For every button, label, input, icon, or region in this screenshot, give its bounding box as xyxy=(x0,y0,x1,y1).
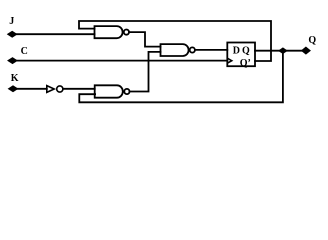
svg-text:J: J xyxy=(9,16,14,27)
wire U1 output to U3 upper input xyxy=(129,32,160,47)
svg-text:Q’: Q’ xyxy=(240,58,251,69)
wire Q' feedback loop (top) xyxy=(79,21,271,61)
wire inverter output to U2 xyxy=(63,88,95,90)
node Q (output terminal) xyxy=(302,47,310,54)
wire U3 output to D xyxy=(195,49,227,51)
NAND gate U1 (top) xyxy=(95,26,130,38)
wire K input to inverter xyxy=(14,88,47,90)
D flip-flop U4 xyxy=(227,43,255,69)
wire Q feedback loop (bottom) xyxy=(79,51,283,103)
node K (input terminal) xyxy=(9,86,18,92)
wire J input xyxy=(14,33,95,35)
node J (input terminal) xyxy=(8,31,17,37)
wire U2 output to U3 lower input xyxy=(130,52,161,92)
svg-text:K: K xyxy=(11,73,19,84)
svg-text:Q: Q xyxy=(308,35,316,46)
NAND gate U2 (bottom) xyxy=(95,85,130,97)
svg-text:Q: Q xyxy=(242,46,250,57)
clock input symbol xyxy=(227,58,232,63)
inverter (NOT gate) on K xyxy=(47,86,63,93)
wire C input to clock xyxy=(14,60,227,62)
wire Q output xyxy=(255,50,303,52)
svg-text:D: D xyxy=(233,46,240,57)
svg-text:C: C xyxy=(21,46,28,57)
junction node on Q wire xyxy=(279,48,287,53)
NAND gate U3 (middle) xyxy=(161,44,195,56)
node C (input terminal) xyxy=(8,58,17,64)
